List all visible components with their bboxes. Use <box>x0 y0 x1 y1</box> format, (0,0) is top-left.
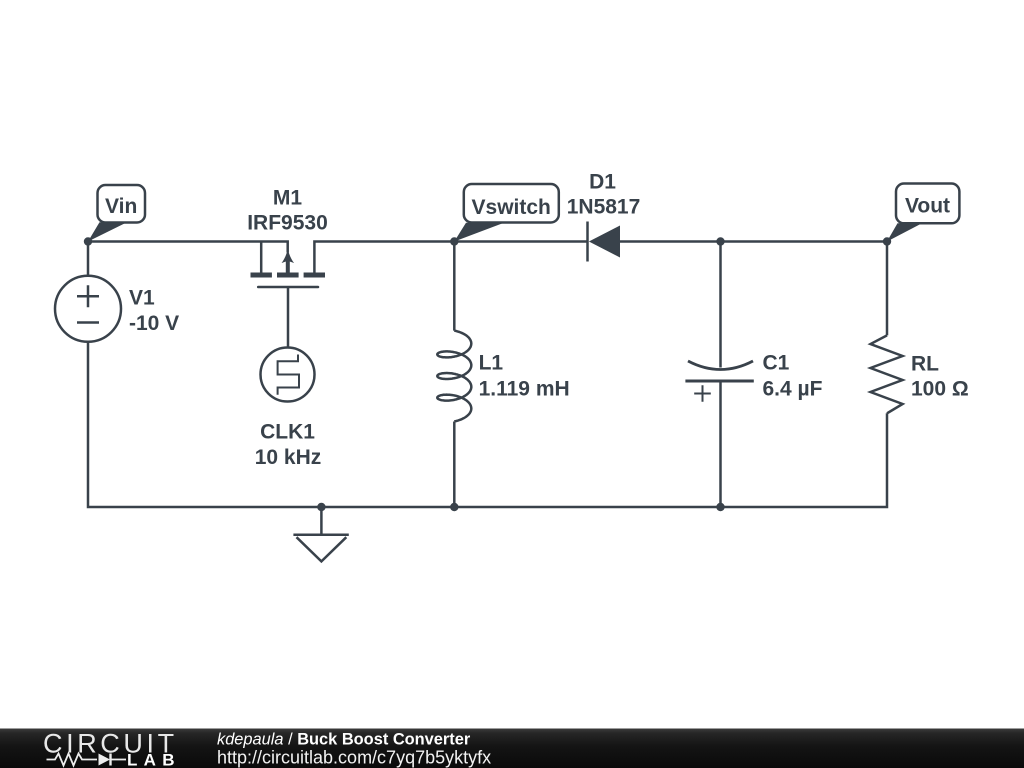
junction node at Vswitch <box>450 237 458 245</box>
node Vin flag <box>88 185 145 242</box>
svg-text:Vin: Vin <box>105 195 137 218</box>
svg-text:V1: V1 <box>129 287 155 310</box>
wire: Vswitch node down to L1 top <box>453 242 456 331</box>
diode D1 <box>588 222 621 262</box>
svg-text:C1: C1 <box>763 352 790 375</box>
CircuitLab logo squiggle (resistor + diode) <box>47 754 127 766</box>
wire: L1 bottom to bottom rail <box>453 422 456 508</box>
clock source CLK1 <box>261 348 315 402</box>
svg-text:CLK1: CLK1 <box>260 421 315 444</box>
footer bar <box>0 729 1024 768</box>
node Vout flag <box>887 184 959 242</box>
junction node at L1 bottom <box>450 503 458 511</box>
ground <box>293 507 348 561</box>
wire: diode D1 to Vout node <box>620 240 887 243</box>
svg-text:6.4 µF: 6.4 µF <box>763 378 823 401</box>
svg-text:LAB: LAB <box>127 751 181 768</box>
wire top: Vin node to MOSFET source corner <box>88 242 288 253</box>
wire: Vin node down to V1 top <box>87 242 90 277</box>
svg-text:D1: D1 <box>589 171 616 194</box>
svg-text:10 kHz: 10 kHz <box>255 446 322 469</box>
wire: Vout node down to RL top <box>886 242 889 336</box>
svg-text:M1: M1 <box>273 187 302 210</box>
wire: V1 bottom, along bottom rail, up to RL bottom <box>88 341 887 507</box>
svg-text:1.119 mH: 1.119 mH <box>479 378 570 401</box>
wire: top rail down to C1 top plate <box>719 242 722 368</box>
svg-text:100 Ω: 100 Ω <box>911 378 969 401</box>
junction node at Vin <box>84 237 92 245</box>
node Vswitch flag <box>454 184 559 242</box>
inductor L1 <box>437 331 471 422</box>
wire: Vswitch node to diode D1 <box>454 240 587 243</box>
capacitor C1 <box>685 361 753 402</box>
svg-text:Vswitch: Vswitch <box>472 196 551 219</box>
svg-text:-10 V: -10 V <box>129 312 179 335</box>
svg-text:Vout: Vout <box>905 195 950 218</box>
wire top: MOSFET drain corner to Vswitch node <box>314 242 454 273</box>
svg-text:IRF9530: IRF9530 <box>247 212 328 235</box>
wire: C1 bottom plate to bottom rail <box>719 381 722 507</box>
resistor RL <box>871 335 903 413</box>
svg-text:kdepaula / Buck Boost Converte: kdepaula / Buck Boost Converter <box>217 730 471 748</box>
junction node at C1 bottom <box>716 503 724 511</box>
svg-text:http://circuitlab.com/c7yq7b5y: http://circuitlab.com/c7yq7b5yktyfx <box>217 748 491 768</box>
junction node at C1 top <box>716 237 724 245</box>
voltage source V1 <box>55 276 121 342</box>
junction node at ground <box>317 503 325 511</box>
svg-text:1N5817: 1N5817 <box>567 196 641 219</box>
svg-text:L1: L1 <box>479 352 504 375</box>
svg-text:RL: RL <box>911 353 939 376</box>
transistor Q M1 (PMOS) <box>251 242 326 348</box>
junction node at Vout <box>883 237 891 245</box>
